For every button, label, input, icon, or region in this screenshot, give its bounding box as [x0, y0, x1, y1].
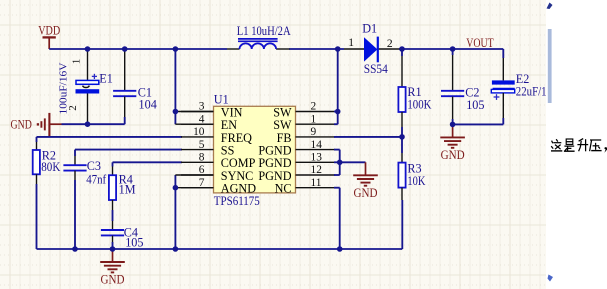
svg-text:105: 105 — [466, 98, 484, 112]
resistor R1 — [401, 49, 403, 56]
svg-text:10K: 10K — [407, 174, 425, 188]
wire pin5 SS to C3 — [75, 149, 182, 151]
wire pin6 SYNC — [175, 174, 213, 176]
wire pin11 NC down to rail — [334, 187, 340, 189]
scrollbar thumb — [548, 29, 552, 103]
svg-text:2: 2 — [67, 105, 79, 111]
wire pin3 VIN — [175, 111, 213, 113]
junction AGND pin7 — [173, 185, 179, 191]
wire PGND to ground — [340, 161, 366, 163]
junction C2-E2 gnd — [450, 122, 456, 128]
wire C2 to E2 bottoms — [453, 123, 504, 125]
U1 right pin 2 SW — [296, 111, 336, 113]
svg-text:8: 8 — [199, 152, 205, 164]
U1 right pin 9 FB — [296, 136, 336, 138]
svg-text:1: 1 — [71, 59, 83, 65]
resistor R4 — [109, 175, 116, 200]
svg-text:1: 1 — [348, 36, 354, 49]
junction VIN pin3 — [173, 109, 179, 115]
svg-text:VOUT: VOUT — [466, 36, 494, 50]
svg-text:11: 11 — [311, 177, 322, 189]
svg-text:SS54: SS54 — [364, 62, 388, 76]
capacitor E2 — [502, 49, 504, 58]
svg-text:13: 13 — [311, 152, 323, 164]
op-amp U1 TPS61175 body — [214, 106, 296, 193]
svg-text:GND: GND — [101, 273, 125, 287]
svg-text:E1: E1 — [99, 72, 113, 86]
svg-text:104: 104 — [139, 97, 157, 111]
wire pin4 EN — [175, 123, 213, 125]
svg-text:D1: D1 — [362, 22, 377, 36]
capacitor C2 — [452, 49, 454, 55]
annotation text (chinese) — [556, 139, 558, 141]
junction NC-rail — [337, 246, 343, 252]
junction C4-rail — [110, 246, 116, 252]
U1 left pin 8 COMP — [181, 161, 214, 163]
junction E1-GND — [85, 121, 91, 127]
U1 left pin 7 AGND — [181, 187, 214, 189]
ground symbol under C2 — [452, 124, 454, 137]
U1 left pin 3 VIN — [181, 111, 214, 113]
svg-text:105: 105 — [125, 236, 143, 250]
svg-text:L1 10uH/2A: L1 10uH/2A — [237, 24, 291, 38]
resistor R3 — [401, 137, 403, 153]
svg-text:1M: 1M — [119, 182, 136, 196]
svg-text:2: 2 — [311, 101, 317, 113]
U1 right pin 13 PGND — [296, 161, 336, 163]
capacitor C2 plates — [441, 90, 464, 92]
wire SW pins to diode anode — [334, 111, 338, 113]
junction C1-VDD — [122, 46, 128, 52]
junction FB divider — [399, 134, 405, 140]
svg-text:10: 10 — [193, 126, 205, 138]
svg-text:GND: GND — [441, 148, 465, 162]
svg-text:TPS61175: TPS61175 — [214, 194, 260, 208]
svg-text:GND: GND — [354, 186, 378, 200]
capacitor C1 plates — [113, 90, 136, 92]
U1 right pin 12 PGND — [296, 174, 336, 176]
wire VDD top rail — [49, 48, 227, 50]
U1 left pin 6 SYNC — [181, 174, 214, 176]
capacitor C4 plates — [101, 229, 124, 231]
svg-text:14: 14 — [311, 139, 323, 151]
wire pin8 COMP to R4 — [113, 161, 183, 163]
junction PGND pin13 — [337, 160, 343, 166]
U1 right pin 14 PGND — [296, 149, 336, 151]
svg-text:47nf: 47nf — [86, 172, 107, 186]
svg-text:VDD: VDD — [38, 24, 60, 38]
ground symbol under C4 — [112, 249, 114, 262]
junction C2-VOUT — [450, 46, 456, 52]
svg-text:NC: NC — [275, 182, 292, 196]
wire FB to divider — [334, 136, 402, 138]
svg-text:2: 2 — [387, 37, 393, 50]
svg-text:80K: 80K — [41, 160, 60, 174]
svg-text:100K: 100K — [407, 98, 431, 112]
svg-text:AGND: AGND — [221, 182, 256, 196]
junction SW-rail — [335, 46, 341, 52]
wire top rail between inductor and diode — [289, 48, 344, 50]
junction AGND-rail — [173, 246, 179, 252]
svg-text:4: 4 — [199, 113, 205, 125]
wire SYNC/AGND to bottom rail — [174, 175, 176, 249]
svg-text:C3: C3 — [87, 159, 101, 173]
svg-text:7: 7 — [199, 177, 205, 189]
wire GND to C1 bottom (EN net) — [62, 123, 125, 125]
svg-text:6: 6 — [199, 164, 205, 176]
svg-text:GND: GND — [11, 118, 32, 132]
ground symbol PGND — [365, 162, 367, 175]
scrollbar bottom mark — [548, 275, 554, 282]
white margin right — [546, 0, 607, 289]
wire top rail diode to VOUT — [399, 48, 503, 50]
scrollbar top mark — [547, 3, 553, 10]
wire PGND pins tie — [334, 149, 340, 151]
svg-text:12: 12 — [311, 164, 323, 176]
svg-text:3: 3 — [199, 101, 205, 113]
U1 left pin 5 SS — [181, 149, 214, 151]
junction R1-VOUT — [399, 46, 405, 52]
capacitor C1 — [124, 49, 126, 90]
U1 left pin 10 FREQ — [181, 136, 214, 138]
wire pin7 AGND — [175, 187, 213, 189]
junction C3-rail — [72, 246, 78, 252]
capacitor E1 — [87, 49, 89, 80]
svg-text:1: 1 — [311, 113, 317, 125]
U1 left pin 4 EN — [181, 123, 214, 125]
junction E1-VDD — [85, 46, 91, 52]
U1 right pin 11 NC — [296, 187, 336, 189]
U1 right pin 1 SW — [296, 123, 336, 125]
capacitor C3 plates — [63, 164, 86, 166]
junction SW pin2 — [335, 109, 341, 115]
junction VIN-VDD — [173, 46, 179, 52]
wire bottom ground rail — [37, 248, 403, 250]
wire VDD down to VIN/EN — [174, 49, 176, 124]
svg-text:5: 5 — [199, 139, 205, 151]
wire pin10 FREQ to R2 — [37, 136, 183, 138]
resistor R2 — [33, 150, 40, 174]
svg-text:9: 9 — [311, 126, 317, 138]
